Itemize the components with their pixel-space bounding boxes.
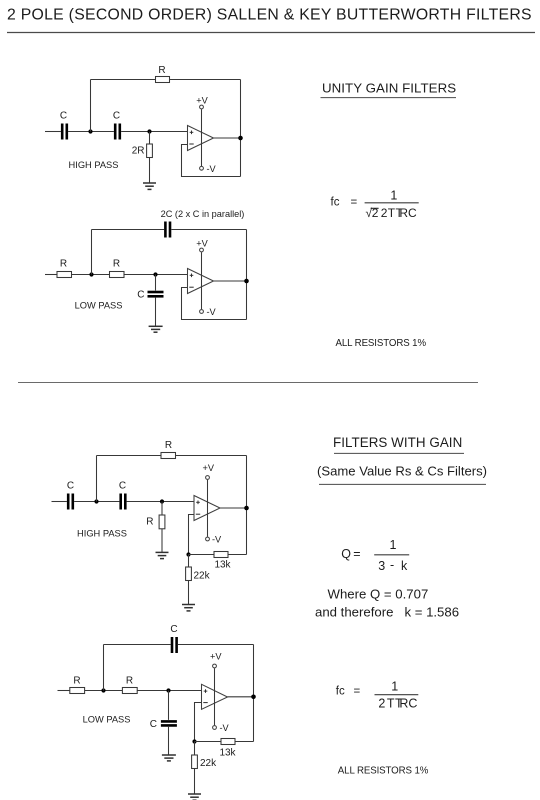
- op-amp + input mark: [190, 131, 194, 135]
- -V supply pin: [206, 537, 210, 541]
- fraction bar: [365, 202, 419, 204]
- wire junction to 13k: [195, 741, 222, 743]
- resistor 13k: [214, 552, 228, 558]
- op-amp - input mark: [196, 513, 200, 515]
- resistor R (first, low pass gain): [70, 688, 85, 694]
- fraction bar: [374, 554, 409, 556]
- wire output: [214, 137, 241, 139]
- wire 22k to ground: [194, 769, 196, 795]
- wire input C1: [45, 131, 61, 133]
- resistor 2R: [147, 144, 153, 158]
- svg-text:C: C: [113, 111, 120, 122]
- wire output right vertical: [240, 80, 242, 177]
- op-amp + input mark: [190, 274, 194, 278]
- wire junction B to C: [168, 691, 170, 720]
- wire inverting input to divider: [195, 703, 202, 742]
- svg-text:HIGH PASS: HIGH PASS: [69, 160, 119, 170]
- wire feedback top left: [104, 644, 171, 646]
- wire R to ground: [161, 529, 163, 553]
- svg-text:C: C: [60, 111, 67, 122]
- svg-text:C: C: [119, 481, 126, 492]
- svg-text:fc: fc: [331, 197, 340, 209]
- svg-text:FILTERS WITH GAIN: FILTERS WITH GAIN: [333, 435, 462, 450]
- -V supply pin: [213, 726, 217, 730]
- op-amp + input mark: [204, 689, 208, 693]
- +V supply pin: [201, 252, 203, 309]
- resistor R (second, low pass gain): [122, 688, 137, 694]
- wire junction B to C: [155, 275, 157, 291]
- wire feedback top right: [176, 455, 247, 457]
- node output: [244, 506, 249, 511]
- wire feedback top left: [92, 229, 165, 231]
- -V supply pin: [200, 310, 204, 314]
- op-amp + input mark: [196, 501, 200, 505]
- subheading underline: [319, 483, 486, 485]
- svg-text:LOW PASS: LOW PASS: [75, 301, 123, 311]
- wire feedback top right: [171, 229, 246, 231]
- svg-text:+V: +V: [203, 463, 215, 473]
- node junction B: [166, 688, 170, 692]
- wire feedback top right: [178, 644, 254, 646]
- wire inverting input to divider: [189, 515, 195, 555]
- svg-text:13k: 13k: [214, 560, 231, 571]
- fraction bar: [375, 694, 419, 696]
- wire output right vertical: [246, 230, 248, 320]
- svg-text:-V: -V: [220, 723, 230, 733]
- ground: [156, 552, 169, 558]
- capacitor C (first, high pass unity): [62, 124, 67, 140]
- formula fc unity: [331, 188, 419, 220]
- op-amp U1: [188, 126, 214, 151]
- wire R1 to R2: [85, 690, 123, 692]
- svg-text:22k: 22k: [194, 571, 211, 582]
- capacitor C (shunt): [161, 721, 177, 725]
- wire 22k to ground: [188, 581, 190, 605]
- wire feedback left vertical: [91, 230, 93, 275]
- resistor 22k: [186, 567, 192, 581]
- wire feedback top left: [91, 79, 156, 81]
- svg-text:13k: 13k: [219, 748, 236, 759]
- resistor R (shunt): [159, 515, 165, 529]
- wire 13k to output vertical: [235, 741, 254, 743]
- op-amp U3: [194, 496, 220, 521]
- wire output right vertical: [253, 645, 255, 742]
- capacitor C (feedback): [172, 637, 177, 653]
- node output: [251, 695, 256, 700]
- node junction A: [101, 688, 105, 692]
- svg-text:ALL RESISTORS 1%: ALL RESISTORS 1%: [338, 766, 429, 777]
- op-amp - input mark: [189, 143, 193, 145]
- svg-text:RC: RC: [399, 206, 417, 220]
- svg-text:R: R: [165, 440, 172, 451]
- wire cap2 to op-amp: [121, 131, 187, 133]
- svg-text:2: 2: [378, 697, 385, 711]
- wire junction B to R: [161, 502, 163, 516]
- ground: [149, 326, 163, 332]
- wire between caps: [74, 501, 119, 503]
- wire between caps: [68, 131, 114, 133]
- svg-text:+V: +V: [210, 652, 222, 662]
- ground: [162, 755, 176, 761]
- capacitor C (second, high pass gain): [121, 494, 126, 510]
- op-amp - input mark: [189, 286, 193, 288]
- wire 2R to ground: [149, 158, 151, 184]
- formula Q: [341, 538, 409, 573]
- +V supply pin: [207, 480, 209, 537]
- formula fc gain: [336, 679, 419, 710]
- wire C to ground: [168, 727, 170, 755]
- wire junction to 22k: [194, 742, 196, 756]
- svg-text:fc: fc: [336, 685, 345, 697]
- svg-text:C: C: [170, 624, 177, 635]
- node junction A: [89, 272, 93, 276]
- wire feedback top left: [97, 455, 162, 457]
- svg-text:+V: +V: [196, 96, 208, 106]
- svg-text:1: 1: [390, 188, 397, 202]
- svg-text:R: R: [158, 65, 165, 76]
- wire feedback left vertical: [90, 80, 92, 132]
- -V supply pin: [200, 166, 204, 170]
- wire to 2R: [149, 132, 151, 145]
- svg-text:RC: RC: [399, 697, 417, 711]
- node junction A: [94, 499, 98, 503]
- svg-text:and therefore k = 1.586: and therefore k = 1.586: [315, 604, 459, 619]
- resistor 13k: [221, 739, 235, 745]
- svg-text:2R: 2R: [132, 146, 145, 157]
- svg-text:-: -: [390, 558, 394, 572]
- node junction A: [88, 129, 92, 133]
- svg-text:22k: 22k: [200, 758, 217, 769]
- svg-text:R: R: [126, 676, 133, 687]
- node divider junction: [186, 552, 190, 556]
- wire R2 to op-amp: [124, 274, 188, 276]
- svg-text:ALL RESISTORS 1%: ALL RESISTORS 1%: [336, 338, 427, 349]
- node junction B: [160, 499, 164, 503]
- wire 13k to output vertical: [228, 554, 247, 556]
- svg-text:(Same Value Rs & Cs Filters): (Same Value Rs & Cs Filters): [317, 464, 487, 479]
- svg-text:C: C: [150, 719, 157, 730]
- wire output: [214, 280, 247, 282]
- svg-text:R: R: [146, 517, 153, 528]
- svg-text:=: =: [354, 685, 361, 697]
- resistor 22k: [192, 755, 198, 769]
- svg-text:-V: -V: [212, 535, 222, 545]
- wire feedback top right: [170, 79, 241, 81]
- wire output right vertical: [246, 456, 248, 555]
- wire output: [228, 696, 254, 698]
- wire feedback left vertical: [96, 456, 98, 502]
- wire feedback left vertical: [103, 645, 105, 691]
- wire R2 to op-amp: [137, 690, 201, 692]
- op-amp U2: [188, 269, 214, 294]
- svg-text:1: 1: [391, 679, 398, 693]
- wire junction to 22k: [188, 555, 190, 568]
- ground: [182, 605, 195, 611]
- svg-text:C: C: [137, 290, 144, 301]
- svg-text:3: 3: [378, 559, 385, 573]
- svg-text:HIGH PASS: HIGH PASS: [77, 529, 127, 539]
- node junction B: [147, 129, 151, 133]
- node output: [238, 136, 243, 141]
- heading underline: [321, 97, 457, 99]
- svg-text:2C (2 x C in parallel): 2C (2 x C in parallel): [161, 209, 245, 219]
- wire R1 to R2: [72, 274, 110, 276]
- node junction B: [153, 272, 157, 276]
- node output: [244, 279, 249, 284]
- svg-text:=: =: [351, 197, 358, 209]
- svg-text:+V: +V: [196, 239, 208, 249]
- resistor R (first, low pass unity): [57, 272, 72, 278]
- svg-text:R: R: [73, 676, 80, 687]
- wire cap2 to op-amp: [127, 501, 194, 503]
- svg-text:1: 1: [390, 538, 397, 552]
- capacitor C (second, high pass unity): [115, 124, 120, 140]
- svg-text:UNITY GAIN FILTERS: UNITY GAIN FILTERS: [322, 81, 456, 96]
- svg-text:=: =: [353, 547, 360, 561]
- svg-text:R: R: [60, 259, 67, 270]
- ground: [143, 183, 156, 189]
- +V supply pin: [201, 109, 203, 166]
- wire output: [220, 507, 247, 509]
- capacitor C (shunt): [148, 292, 164, 296]
- wire feedback bottom: [182, 145, 241, 177]
- wire input: [45, 274, 57, 276]
- svg-text:R: R: [113, 259, 120, 270]
- svg-text:2 POLE (SECOND ORDER) SALLEN &: 2 POLE (SECOND ORDER) SALLEN & KEY BUTTE…: [7, 7, 532, 24]
- svg-text:C: C: [67, 481, 74, 492]
- resistor R (second, low pass unity): [110, 272, 125, 278]
- op-amp U4: [202, 684, 228, 709]
- +V supply pin: [214, 668, 216, 725]
- wire input: [58, 690, 70, 692]
- wire input: [52, 501, 67, 503]
- svg-text:-V: -V: [207, 164, 217, 174]
- svg-text:Where Q = 0.707: Where Q = 0.707: [328, 586, 429, 601]
- svg-text:-V: -V: [207, 307, 217, 317]
- resistor R (feedback): [161, 453, 176, 459]
- section divider: [18, 382, 478, 384]
- capacitor C (first, high pass gain): [68, 494, 73, 510]
- heading underline: [334, 452, 464, 454]
- wire C to ground: [155, 298, 157, 327]
- svg-text:Q: Q: [341, 547, 351, 561]
- title underline: [7, 32, 535, 34]
- svg-text:LOW PASS: LOW PASS: [83, 715, 131, 725]
- capacitor 2C (feedback): [165, 222, 170, 238]
- resistor R (feedback): [156, 77, 170, 83]
- svg-text:k: k: [401, 559, 408, 573]
- svg-text:2: 2: [381, 206, 388, 220]
- ground: [188, 794, 201, 800]
- wire junction to 13k: [189, 554, 215, 556]
- op-amp - input mark: [203, 702, 207, 704]
- wire feedback bottom: [182, 288, 247, 320]
- node divider junction: [192, 739, 196, 743]
